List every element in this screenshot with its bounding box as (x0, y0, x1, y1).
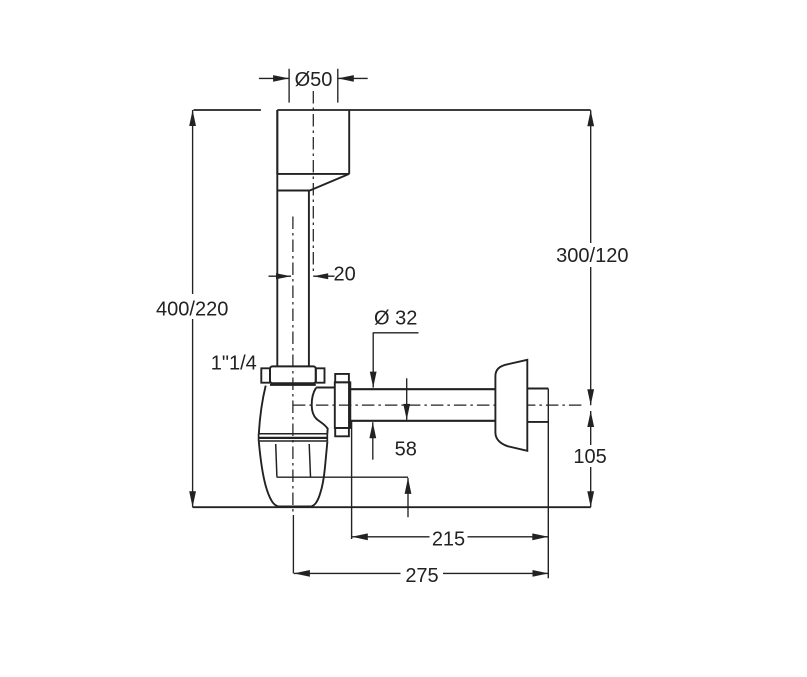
dim 58 (406, 378, 408, 420)
dim Ø32 leader (373, 333, 419, 388)
arrow 105 top (587, 411, 594, 427)
node centerline pipe (292, 217, 294, 516)
node trap top nut left ear (261, 368, 270, 382)
arrow 400 top (189, 110, 196, 126)
node trap top nut collar (270, 366, 316, 383)
wire wall top line (194, 109, 591, 111)
dim Ø50 (289, 69, 338, 103)
node tailpiece taper (277, 174, 349, 191)
node trap top nut right ear (316, 368, 325, 382)
dim 20 (269, 275, 335, 277)
dim 275 (294, 572, 549, 574)
dim 300/120 and 105 (590, 110, 592, 405)
svg-text:300/120: 300/120 (556, 245, 628, 267)
svg-text:105: 105 (573, 446, 606, 468)
svg-text:275: 275 (405, 565, 438, 587)
wire bottom reference line (193, 506, 591, 508)
arrow 105 bottom (587, 491, 594, 507)
arrow 20 left (276, 273, 291, 279)
wire elbow top line (316, 387, 335, 389)
dim 215 (352, 536, 549, 538)
arrow 275 right (533, 570, 549, 577)
wire extension line 215 left (351, 421, 353, 539)
arrow 400 bottom (189, 491, 196, 507)
arrow 300 bottom (587, 389, 594, 405)
arrow 275 left (294, 570, 310, 577)
node centerline horizontal (293, 404, 583, 406)
svg-text:1"1/4: 1"1/4 (211, 353, 257, 375)
node wall stub (527, 389, 548, 422)
node trap cup (259, 441, 328, 506)
arrow 58 bottom (405, 478, 412, 494)
arrowheads (189, 75, 594, 577)
arrow dim50 left (273, 75, 289, 82)
node trap joint rings (258, 433, 327, 435)
svg-text:400/220: 400/220 (156, 299, 228, 321)
arrow 58 top (403, 404, 410, 420)
arrow 215 left (352, 533, 368, 540)
node tailpiece box (277, 110, 349, 174)
svg-text:20: 20 (333, 264, 355, 286)
dim 400/220 (192, 110, 194, 507)
arrow dia32 bottom (369, 422, 376, 438)
arrow 215 right (532, 533, 548, 540)
node centerline box (312, 91, 314, 272)
wire horizontal outlet pipe (350, 389, 495, 421)
node trap inner tube (276, 444, 311, 477)
node outlet nut (335, 374, 349, 382)
svg-text:Ø 32: Ø 32 (374, 308, 417, 330)
arrow dia32 top (370, 372, 377, 388)
svg-text:215: 215 (432, 529, 465, 551)
node trap top nut shadow (270, 384, 316, 386)
wire extension line wall (547, 389, 549, 579)
svg-text:58: 58 (395, 438, 417, 460)
arrow dim50 right (338, 75, 354, 82)
node trap upper body (259, 386, 266, 434)
svg-text:Ø50: Ø50 (295, 69, 333, 91)
arrow 20 right (313, 273, 328, 279)
node vertical pipe (277, 110, 309, 366)
node wall rosette (495, 360, 527, 451)
arrow 300 top (587, 110, 594, 126)
